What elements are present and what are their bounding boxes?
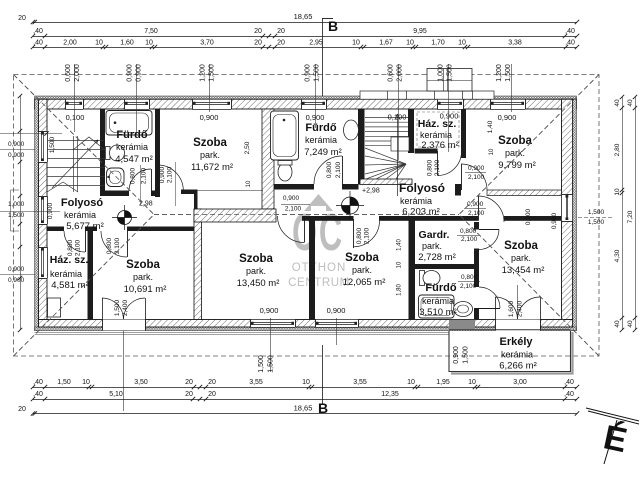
svg-text:1,000: 1,000 <box>438 64 445 82</box>
svg-text:20: 20 <box>18 15 26 22</box>
svg-text:1,500: 1,500 <box>588 209 605 216</box>
wall V6 hazsz right <box>461 109 466 158</box>
svg-text:0,900: 0,900 <box>327 306 346 315</box>
basin bath3 <box>454 302 473 317</box>
svg-text:2,100: 2,100 <box>468 174 485 181</box>
boiler hazsz1 <box>48 298 61 317</box>
svg-text:20: 20 <box>208 391 216 398</box>
dimension row 3 top <box>33 47 577 49</box>
svg-text:10: 10 <box>352 40 360 47</box>
wall V5 stair/hazsz top <box>408 109 414 153</box>
svg-text:0,900: 0,900 <box>200 113 219 122</box>
wall H4 hazsz2 bottom <box>415 149 438 154</box>
terrace threshold dark <box>449 320 475 330</box>
svg-text:1,67: 1,67 <box>379 40 393 47</box>
svg-text:10: 10 <box>406 40 414 47</box>
right margin inner dim line <box>622 97 624 330</box>
svg-text:12,065 m²: 12,065 m² <box>343 277 386 288</box>
svg-text:,40: ,40 <box>565 28 575 35</box>
svg-text:0,100: 0,100 <box>388 113 407 122</box>
svg-text:6,266 m²: 6,266 m² <box>499 361 537 372</box>
level marker corridor right <box>336 191 364 220</box>
door bath1 from corridor <box>151 169 153 191</box>
svg-text:3,50: 3,50 <box>134 379 148 386</box>
svg-text:0,900: 0,900 <box>283 195 300 202</box>
wall V9 room10691/room13450 thick <box>194 209 202 320</box>
svg-text:10: 10 <box>397 261 403 268</box>
svg-text:3,55: 3,55 <box>249 379 263 386</box>
svg-text:,40: ,40 <box>564 379 574 386</box>
svg-text:40: 40 <box>614 320 621 328</box>
window W4 bath2 <box>301 99 326 109</box>
left wall window stairs <box>39 131 48 162</box>
svg-text:Szoba: Szoba <box>498 135 532 147</box>
svg-text:13,454 m²: 13,454 m² <box>502 265 545 276</box>
wall V10 room13450/room12065 <box>309 216 315 320</box>
bathtub bath1 <box>106 111 152 136</box>
svg-text:2,000: 2,000 <box>74 64 81 82</box>
svg-text:10: 10 <box>145 40 153 47</box>
door hazsz2 <box>437 151 439 176</box>
svg-text:,40: ,40 <box>564 391 574 398</box>
svg-text:0,600: 0,600 <box>65 64 72 82</box>
svg-text:,40: ,40 <box>33 379 43 386</box>
svg-text:2,728 m²: 2,728 m² <box>418 252 456 263</box>
double door erkely <box>495 297 497 320</box>
hazsz2 ceiling dashed inset <box>417 112 459 147</box>
svg-text:20: 20 <box>185 379 193 386</box>
svg-text:2,400: 2,400 <box>122 299 129 316</box>
sink bath2 <box>344 120 359 140</box>
svg-text:0,800: 0,800 <box>356 227 363 244</box>
svg-text:2,000: 2,000 <box>397 64 404 82</box>
door room1 from corridor <box>157 165 159 191</box>
dimension row 1 top <box>33 22 577 24</box>
svg-text:0,800: 0,800 <box>326 161 333 178</box>
wall H8 corridor bottom right <box>302 216 354 221</box>
svg-text:0,600: 0,600 <box>388 64 395 82</box>
svg-text:kerámia: kerámia <box>420 130 452 140</box>
facade step band top <box>360 91 494 99</box>
svg-text:7,50: 7,50 <box>144 28 158 35</box>
witness lines from windows <box>74 64 76 132</box>
svg-text:7,249 m²: 7,249 m² <box>304 147 342 158</box>
door room NE from corridor <box>461 164 463 190</box>
svg-text:1,70: 1,70 <box>431 40 445 47</box>
svg-text:2,100: 2,100 <box>141 167 148 184</box>
svg-text:0,900: 0,900 <box>8 152 25 159</box>
svg-text:0,100: 0,100 <box>66 113 85 122</box>
svg-text:10,691 m²: 10,691 m² <box>124 284 167 295</box>
svg-text:20: 20 <box>254 28 262 35</box>
wall V1 bath1 left <box>100 109 105 196</box>
svg-text:0,900: 0,900 <box>8 266 25 273</box>
svg-text:1,40: 1,40 <box>487 120 494 133</box>
door room12065 from corridor <box>353 219 355 248</box>
svg-text:kerámia: kerámia <box>422 296 454 306</box>
svg-text:Fürdő: Fürdő <box>425 282 456 294</box>
svg-text:Erkély: Erkély <box>499 336 533 348</box>
svg-text:6,203 m²: 6,203 m² <box>402 207 440 218</box>
right margin outer dim line <box>635 97 637 330</box>
svg-text:1,200: 1,200 <box>200 64 207 82</box>
exterior wall right <box>573 99 577 330</box>
svg-text:1,500: 1,500 <box>209 64 216 82</box>
svg-text:1,600: 1,600 <box>508 300 515 317</box>
door hazsz1 from corridor <box>85 231 87 252</box>
svg-text:3,38: 3,38 <box>508 40 522 47</box>
svg-text:0,900: 0,900 <box>260 306 279 315</box>
svg-text:2,100: 2,100 <box>460 283 477 290</box>
window W3 room1 <box>192 99 231 109</box>
svg-text:10: 10 <box>489 148 495 155</box>
svg-text:kerámia: kerámia <box>64 210 96 220</box>
door room13454 from corridor <box>478 196 480 221</box>
svg-text:2,100: 2,100 <box>468 210 485 217</box>
svg-text:1,500: 1,500 <box>114 299 121 316</box>
roof outline dashed overlay <box>14 75 600 357</box>
svg-text:1,200: 1,200 <box>496 64 503 82</box>
wall H6 room NE bottom <box>455 184 461 196</box>
wall V3 room1/bath2 thick <box>262 109 274 209</box>
svg-text:10: 10 <box>95 40 103 47</box>
left margin vertical dim line <box>20 96 22 330</box>
svg-text:Folyosó: Folyosó <box>399 181 445 195</box>
wall V9 top stub <box>194 193 198 209</box>
door bath2 <box>342 156 344 184</box>
svg-text:2,376 m²: 2,376 m² <box>421 140 459 151</box>
window W1 stair <box>65 99 83 109</box>
svg-text:Szoba: Szoba <box>345 252 379 264</box>
exterior wall bottom <box>35 327 577 331</box>
svg-text:OTTHON: OTTHON <box>292 262 347 274</box>
svg-text:0,900: 0,900 <box>159 166 166 183</box>
svg-text:kerámia: kerámia <box>400 196 432 206</box>
svg-text:Szoba: Szoba <box>504 240 538 252</box>
svg-text:0,900: 0,900 <box>127 64 134 82</box>
svg-text:Szoba: Szoba <box>193 137 227 149</box>
svg-text:2,100: 2,100 <box>167 166 174 183</box>
svg-text:B: B <box>328 18 338 34</box>
svg-text:1,95: 1,95 <box>436 379 450 386</box>
svg-text:9,95: 9,95 <box>413 28 427 35</box>
svg-text:20: 20 <box>277 40 285 47</box>
svg-text:0,800: 0,800 <box>461 274 478 281</box>
svg-text:20: 20 <box>208 379 216 386</box>
svg-text:Gardr.: Gardr. <box>419 229 450 241</box>
door room10691 from corridor <box>127 231 129 257</box>
chimney <box>427 69 472 92</box>
wall V11 room12065/gardr <box>409 216 416 320</box>
svg-text:4,547 m²: 4,547 m² <box>115 154 153 165</box>
svg-text:,40: ,40 <box>33 391 43 398</box>
svg-text:kerámia: kerámia <box>501 350 533 360</box>
bottom door erkely opening <box>495 320 540 331</box>
svg-text:10: 10 <box>468 379 476 386</box>
svg-text:park.: park. <box>246 266 266 276</box>
svg-text:3,00: 3,00 <box>513 379 527 386</box>
stair arrow <box>397 114 399 196</box>
svg-text:kerámia: kerámia <box>116 142 148 152</box>
door bath3 from room13454 <box>479 308 500 310</box>
svg-text:2,100: 2,100 <box>335 161 342 178</box>
svg-text:park.: park. <box>352 265 372 275</box>
svg-text:1,500: 1,500 <box>505 64 512 82</box>
wall V12 gardr right <box>474 222 479 230</box>
room1 bottom face line <box>197 190 263 192</box>
svg-text:1,60: 1,60 <box>120 40 134 47</box>
level marker corridor left <box>112 205 137 230</box>
north arrow <box>586 408 639 464</box>
dimension row B bottom <box>33 399 577 401</box>
section line B bottom <box>322 345 324 404</box>
svg-text:0,900: 0,900 <box>305 64 312 82</box>
shower bath3 <box>419 295 455 318</box>
right wall window corridor <box>562 194 573 221</box>
svg-text:4,30: 4,30 <box>614 249 621 262</box>
window W5 hazsz <box>437 99 463 109</box>
window W2 bath1 <box>124 99 149 109</box>
svg-text:10: 10 <box>82 379 90 386</box>
svg-text:1,500: 1,500 <box>49 136 56 153</box>
bottom door D1 opening <box>102 320 145 331</box>
svg-text:1,80: 1,80 <box>397 284 403 296</box>
svg-text:11,672 m²: 11,672 m² <box>191 162 233 173</box>
svg-text:40: 40 <box>627 99 634 107</box>
wc bath2 <box>278 163 292 181</box>
svg-text:3,55: 3,55 <box>353 379 367 386</box>
svg-text:0,900: 0,900 <box>136 64 143 82</box>
svg-text:20: 20 <box>185 391 193 398</box>
wall V8 hazsz1/room 10691 <box>88 231 94 320</box>
svg-text:18,65: 18,65 <box>294 404 313 413</box>
wall H1 bath1 bottom <box>100 191 129 197</box>
wc bath1 <box>106 147 111 160</box>
dimension row 2 top <box>33 36 577 38</box>
svg-text:park.: park. <box>505 148 525 158</box>
svg-text:Szoba: Szoba <box>239 253 273 265</box>
roof outline dashed <box>14 75 600 357</box>
exterior wall top <box>35 96 577 99</box>
bottom window room 13450 <box>250 320 295 328</box>
svg-text:40: 40 <box>627 320 634 328</box>
svg-text:0,800: 0,800 <box>460 228 477 235</box>
svg-text:1,50: 1,50 <box>57 379 71 386</box>
svg-text:3,510 m²: 3,510 m² <box>419 307 457 318</box>
svg-text:1,500: 1,500 <box>447 64 454 82</box>
svg-text:7,20: 7,20 <box>627 210 634 223</box>
svg-text:40: 40 <box>614 99 621 107</box>
svg-text:Fürdő: Fürdő <box>305 122 336 134</box>
right window dim 1500 <box>578 217 614 219</box>
svg-text:Ház. sz.: Ház. sz. <box>50 254 89 266</box>
svg-text:0,900: 0,900 <box>453 346 460 364</box>
svg-text:0,900: 0,900 <box>8 277 25 284</box>
svg-text:0,900: 0,900 <box>47 202 54 219</box>
sink bath1 <box>107 168 125 187</box>
bathtub bath2 <box>271 111 299 160</box>
watermark OC Otthon Centrum <box>288 194 350 289</box>
svg-text:10: 10 <box>458 40 466 47</box>
svg-text:10: 10 <box>246 180 252 187</box>
svg-text:Folyosó: Folyosó <box>61 197 103 209</box>
wc bath3 <box>420 271 425 286</box>
svg-text:Szoba: Szoba <box>126 259 160 271</box>
svg-text:0,900: 0,900 <box>467 201 484 208</box>
svg-text:OC: OC <box>292 204 344 262</box>
wall H10 room13450 top thick <box>194 209 276 222</box>
svg-text:20: 20 <box>277 28 285 35</box>
svg-text:2,100: 2,100 <box>461 236 478 243</box>
stairs left <box>47 136 105 192</box>
svg-text:0,800: 0,800 <box>130 167 137 184</box>
bottom window room 12065 <box>315 320 358 328</box>
double door D1 bottom <box>102 298 104 320</box>
wall H3 bath2 bottom <box>274 184 314 190</box>
svg-text:kerámia: kerámia <box>50 269 82 279</box>
dimension row A bottom <box>33 387 577 389</box>
left wall door corridor <box>39 196 48 224</box>
svg-text:10: 10 <box>302 379 310 386</box>
svg-text:2,100: 2,100 <box>285 206 302 213</box>
wall V4 bath2/stair <box>358 109 365 185</box>
svg-text:1,500: 1,500 <box>588 219 605 226</box>
svg-text:2,50: 2,50 <box>244 141 251 154</box>
left wall window hazsz <box>39 247 48 278</box>
svg-text:3,70: 3,70 <box>200 40 214 47</box>
svg-text:0,900: 0,900 <box>440 112 459 121</box>
svg-text:,40: ,40 <box>33 28 43 35</box>
svg-text:2,95: 2,95 <box>309 40 323 47</box>
door gardr from room13454 <box>479 229 499 231</box>
svg-text:1,500: 1,500 <box>258 355 265 373</box>
section line B top <box>322 18 333 20</box>
svg-text:2,100: 2,100 <box>434 159 441 176</box>
balcony erkely outline <box>449 329 571 331</box>
wall V2 bath1/room1 <box>155 109 160 197</box>
stairs central <box>365 118 408 180</box>
svg-text:+2,98: +2,98 <box>362 188 380 195</box>
svg-text:,40: ,40 <box>565 40 575 47</box>
svg-text:0,900: 0,900 <box>306 113 325 122</box>
stair room bottom wall <box>360 179 412 185</box>
svg-text:2,100: 2,100 <box>364 227 371 244</box>
svg-text:park.: park. <box>422 241 442 251</box>
svg-text:CENTRUM: CENTRUM <box>288 277 350 289</box>
svg-text:park.: park. <box>133 272 153 282</box>
wall H7 corridor bottom left <box>47 227 65 232</box>
svg-text:1,500: 1,500 <box>314 64 321 82</box>
svg-text:13,450 m²: 13,450 m² <box>237 278 280 289</box>
dimension row C bottom <box>33 413 577 415</box>
svg-text:10: 10 <box>614 188 621 196</box>
svg-text:9,799 m²: 9,799 m² <box>498 160 536 171</box>
svg-text:park.: park. <box>511 253 531 263</box>
svg-text:1,500: 1,500 <box>268 355 275 373</box>
wall H9 gardr bottom <box>409 264 480 269</box>
svg-text:20: 20 <box>18 406 26 413</box>
svg-text:18,65: 18,65 <box>294 12 313 21</box>
svg-text:0,900: 0,900 <box>498 113 517 122</box>
svg-text:kerámia: kerámia <box>305 135 337 145</box>
svg-text:12,35: 12,35 <box>381 391 399 398</box>
svg-text:B: B <box>318 400 328 416</box>
svg-text:1,40: 1,40 <box>397 239 403 251</box>
svg-text:Fürdő: Fürdő <box>116 129 147 141</box>
exterior wall left <box>35 99 39 330</box>
svg-text:2,80: 2,80 <box>614 143 621 156</box>
svg-text:0,900: 0,900 <box>8 141 25 148</box>
svg-text:5,677 m²: 5,677 m² <box>66 221 104 232</box>
svg-text:20: 20 <box>254 40 262 47</box>
door room13450 from corridor <box>304 216 306 243</box>
svg-text:1,500: 1,500 <box>463 346 470 364</box>
svg-text:2,00: 2,00 <box>63 40 77 47</box>
svg-text:park.: park. <box>200 150 220 160</box>
svg-text:10: 10 <box>407 379 415 386</box>
svg-text:5,10: 5,10 <box>109 391 123 398</box>
window W6 room NE <box>490 99 525 109</box>
svg-text:,40: ,40 <box>33 40 43 47</box>
ground edge line below bottom wall <box>35 332 449 334</box>
svg-text:0,800: 0,800 <box>427 159 434 176</box>
wall H2 room1 bottom <box>181 190 198 195</box>
svg-text:0,900: 0,900 <box>468 165 485 172</box>
svg-text:0,800: 0,800 <box>106 237 113 254</box>
svg-text:0,900: 0,900 <box>525 208 532 225</box>
svg-text:0,900: 0,900 <box>551 212 558 229</box>
